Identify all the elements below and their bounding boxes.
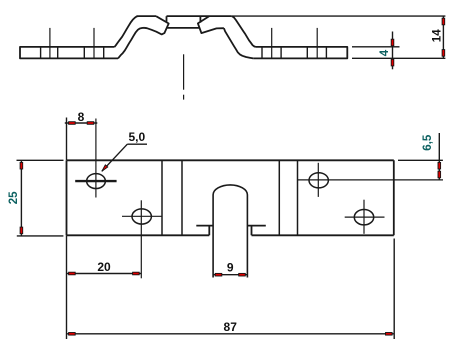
svg-text:25: 25 [8,191,20,204]
side view: right flat plate outline [253,47,347,59]
dim 4 arrow top box (outside) [391,39,394,46]
dim 20 and 87: left extension line [66,235,68,339]
plan view: hole2 vertical centre line / ext of dim 20 [140,200,142,278]
dim 8 arrow left box [69,122,76,125]
dim 5,0: leader line [102,144,128,171]
side view: right bent tab [198,16,224,33]
dim 20: dimension line [67,273,142,275]
dim 25: bottom extension line [17,235,64,237]
dim 9 arrow left box [215,273,222,276]
dim 9: dimension line [213,274,248,276]
dim 6,5 arrow top box [438,162,441,169]
dim 8: dimension line [65,122,98,124]
plan view: tab notch right [248,226,266,236]
plan view: hole3 circle [309,173,328,188]
dim 4: top extension line [352,46,400,48]
svg-text:4: 4 [379,49,391,56]
dim 4: dimension line [392,32,394,70]
dim 25 arrow top box [20,162,23,169]
dim 4 and 14: bottom extension line [352,57,445,59]
svg-text:5,0: 5,0 [128,130,145,144]
plan view: bend line 2 [181,160,183,235]
plan view: hole3 vertical centre line [317,163,319,197]
side view: hat centre line dash [183,95,185,100]
svg-text:6,5: 6,5 [422,134,434,151]
plan view: hole2 horizontal centre line [122,215,162,217]
plan view: hole1 vertical centre line / ext of dim 8 [95,119,97,198]
dim 14 arrow bottom box [442,50,445,57]
dim 14 arrow top box [442,18,445,25]
plan view: hole4 vertical centre line [363,200,365,234]
dim 4 arrow bottom box (outside) [391,59,394,66]
plan view: hole1 circle [87,174,106,189]
dim 14: top extension line (hat top continued) [231,15,445,17]
plan view: bend line 1 [161,160,163,235]
side view: left S-bend outer curve [115,16,139,47]
dim 20 arrow right box [133,272,140,275]
side view: hat top line right segment [167,15,232,17]
side view: hat centre line solid segment [183,54,185,89]
dim 8: left extension line [66,118,68,161]
dim 5,0 leader arrowhead [102,165,108,172]
side view: hole edge lines right plate [262,47,326,59]
dim 5,0: text underline [127,143,147,145]
dim 25: top extension line [17,159,64,161]
side view: left bent tab [144,16,169,34]
dim 8 arrow right box [87,122,94,125]
dim 87: dimension line [67,333,395,335]
plan view: central slot with tab extension [213,185,247,278]
dim 6,5 arrow bottom box [438,171,441,178]
plan view: hole3 horizontal centre line / ext of dim 6,5 [298,179,443,181]
dim 87 arrow left box [69,333,76,336]
plan view: hole4 horizontal centre line [345,216,385,218]
side view: hat top line left segment [139,15,157,17]
side view: right tab cut edge [199,16,201,22]
plan view: hole2 circle [132,209,151,224]
plan view: bend line 4 [297,160,299,235]
side view: right S-bend inner curve [224,28,253,58]
svg-text:87: 87 [224,320,238,334]
dim 14: dimension line [442,16,444,58]
dim 87 arrow right box [386,333,393,336]
side view: left tab cut edge [166,16,168,22]
dim 87: right extension line [393,239,395,340]
side view: right S-bend outer curve [232,16,256,47]
dim 9 arrow right box [239,273,246,276]
plan view: plate outline rectangle [67,160,394,235]
svg-text:8: 8 [78,110,85,124]
side view: hole centre line left hole1 [49,28,51,59]
side view: hole centre line right hole3 [271,28,273,59]
plan view: hole4 circle [354,210,373,225]
svg-text:20: 20 [97,260,111,274]
plan view: tab notch left [196,226,213,236]
side view: hole edge lines left plate [41,47,104,59]
dim 6,5: top extension line [398,159,443,161]
side view: hat inner line middle segment [167,27,199,29]
plan view: bend line 3 [278,160,280,235]
plan view: hole1 thick horizontal centre line [75,180,116,182]
svg-text:9: 9 [227,260,234,274]
side view: left S-bend inner curve [118,28,144,59]
dim 6,5: dimension line [438,133,440,180]
side view: left flat plate outline [20,47,118,59]
dim 20 arrow left box [69,272,76,275]
svg-text:14: 14 [431,29,443,42]
dim 25: dimension line [20,160,22,236]
side view: hole centre line right hole4 [316,28,318,59]
side view: hole centre line left hole2 [93,28,95,59]
dim 25 arrow bottom box [20,227,23,234]
